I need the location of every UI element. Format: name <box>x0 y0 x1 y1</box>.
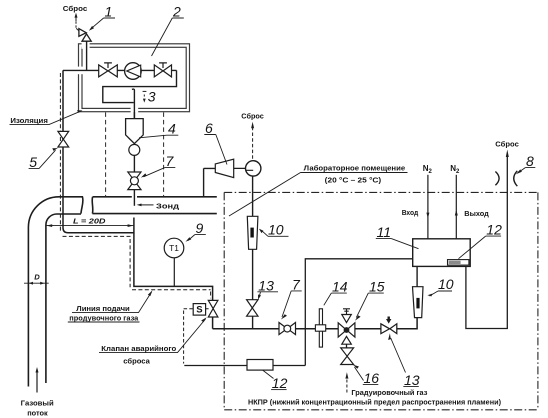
svg-text:D: D <box>34 273 40 282</box>
svg-text:14: 14 <box>332 279 348 295</box>
svg-text:(20 °С – 25 °С): (20 °С – 25 °С) <box>325 175 382 184</box>
svg-text:16: 16 <box>364 370 380 386</box>
flame arrester 8 arcs <box>495 172 499 186</box>
duct straight section top wall (gap at probe) <box>92 197 217 214</box>
purge gas line (solid) <box>63 70 134 232</box>
svg-text:Лабораторное помещение: Лабораторное помещение <box>304 164 406 173</box>
purge line vertical to S-valve <box>134 218 213 329</box>
svg-text:2: 2 <box>172 4 181 20</box>
insulated cabinet box 2 inner border <box>82 47 186 108</box>
svg-text:6: 6 <box>205 120 213 136</box>
return loop inside box 2 <box>103 70 177 102</box>
svg-text:8: 8 <box>526 153 534 169</box>
svg-text:9: 9 <box>196 220 204 236</box>
line funnel to valve 7a <box>133 155 135 172</box>
svg-text:3: 3 <box>148 89 156 105</box>
dashed calibration gas inlet with arrow <box>346 380 348 395</box>
rotameter 10a <box>252 249 254 328</box>
dashed heated corridor below box 2 <box>105 112 107 196</box>
svg-text:L = 20D: L = 20D <box>73 216 106 225</box>
svg-text:Зонд: Зонд <box>156 202 179 211</box>
main line inside box 2 <box>63 69 177 71</box>
item 3 marks and label <box>143 90 147 92</box>
svg-text:Изоляция: Изоляция <box>10 116 48 125</box>
line valve 1 to main line <box>86 41 88 70</box>
svg-text:Градуировочный газ: Градуировочный газ <box>351 388 427 397</box>
blower circle <box>246 161 261 176</box>
svg-text:11: 11 <box>377 224 392 240</box>
indicator block 12b <box>247 360 273 371</box>
duct elbow outer wall <box>28 197 83 387</box>
svg-text:Т1: Т1 <box>169 243 179 253</box>
dimension L = 20D <box>46 225 133 227</box>
line 15 to 16 <box>346 344 348 348</box>
valve (left, in box 2) <box>104 63 112 68</box>
valve (right, in box 2) <box>159 63 167 68</box>
probe line into duct <box>133 190 135 206</box>
line with indicator 12b <box>184 365 305 367</box>
shut-off valve 13a <box>247 300 258 308</box>
svg-text:S: S <box>196 305 202 316</box>
gas analyser box 11 <box>413 239 471 267</box>
temperature indicator T1 <box>164 238 184 258</box>
svg-text:12: 12 <box>272 375 288 391</box>
pump (in box 2) <box>125 63 142 80</box>
flame arrester 14 <box>319 309 322 347</box>
svg-text:1: 1 <box>105 4 113 20</box>
svg-text:Газовый: Газовый <box>21 398 54 407</box>
dashed vent with arrow (Сброс mid) <box>252 128 254 159</box>
svg-text:Сброс: Сброс <box>241 111 263 120</box>
rotameter 10b <box>416 266 418 286</box>
nitrogen outlet line (Выход) <box>455 175 457 239</box>
calibration valve 16 <box>341 348 354 356</box>
svg-text:5: 5 <box>29 154 37 170</box>
gas flow arrow <box>36 372 38 393</box>
shut-off valve 5 <box>58 131 69 139</box>
svg-text:поток: поток <box>27 409 48 418</box>
svg-text:15: 15 <box>369 279 385 295</box>
label 12 with leader <box>263 370 274 379</box>
main sample line to analyser <box>213 318 418 329</box>
svg-text:7: 7 <box>292 276 301 292</box>
white gaps in box 2 border where pipes cross <box>77 67 84 75</box>
signal line from analyser to indicator 12 <box>305 259 412 366</box>
needle valve 7a <box>128 172 141 181</box>
insulated cabinet box 2 outer border <box>79 44 190 112</box>
svg-text:Выход: Выход <box>464 209 489 218</box>
duct straight section bottom wall <box>92 213 216 215</box>
nitrogen inlet line (Вход) <box>427 175 429 239</box>
angle vent valve 1 <box>79 29 86 37</box>
svg-text:НКПР (нижний концентрационный: НКПР (нижний концентрационный предел рас… <box>248 397 501 406</box>
dashed heating companion of purge line <box>59 73 61 231</box>
svg-text:7: 7 <box>166 153 175 169</box>
solenoid box S <box>193 304 205 316</box>
moisture separator funnel 4 <box>133 112 135 119</box>
svg-text:Сброс: Сброс <box>495 140 519 149</box>
svg-text:Линия подачи: Линия подачи <box>76 304 130 313</box>
dimension D <box>24 282 49 284</box>
analyser exhaust line to vent <box>466 156 507 329</box>
svg-text:продувочного газа: продувочного газа <box>69 313 139 322</box>
svg-text:10: 10 <box>268 222 284 238</box>
sample line from blower down to rotameter <box>252 176 254 216</box>
svg-text:13: 13 <box>258 277 274 293</box>
laboratory room boundary <box>224 192 538 409</box>
emergency vent valve (on S line) <box>208 300 218 308</box>
svg-text:4: 4 <box>168 121 176 137</box>
dashed signal lines of solenoid <box>184 308 209 310</box>
svg-text:сброса: сброса <box>123 356 150 365</box>
display window 12a <box>448 260 469 266</box>
duct elbow inner wall <box>46 214 81 383</box>
svg-text:10: 10 <box>438 276 454 292</box>
svg-text:Вход: Вход <box>402 208 419 217</box>
pressure regulator 15 <box>343 309 350 315</box>
heated sample line from box 2 down to funnel <box>132 89 135 119</box>
ejector 6 <box>215 159 233 177</box>
dashed vent line from valve 1 <box>76 28 79 30</box>
svg-text:Клапан аварийного: Клапан аварийного <box>101 344 176 353</box>
svg-text:13: 13 <box>404 372 420 388</box>
svg-text:Сброс: Сброс <box>63 4 88 13</box>
three-way valve 13b <box>381 324 390 334</box>
needle valve 7b <box>279 323 287 335</box>
ejector feed line to duct <box>204 168 216 196</box>
svg-text:12: 12 <box>486 222 502 238</box>
